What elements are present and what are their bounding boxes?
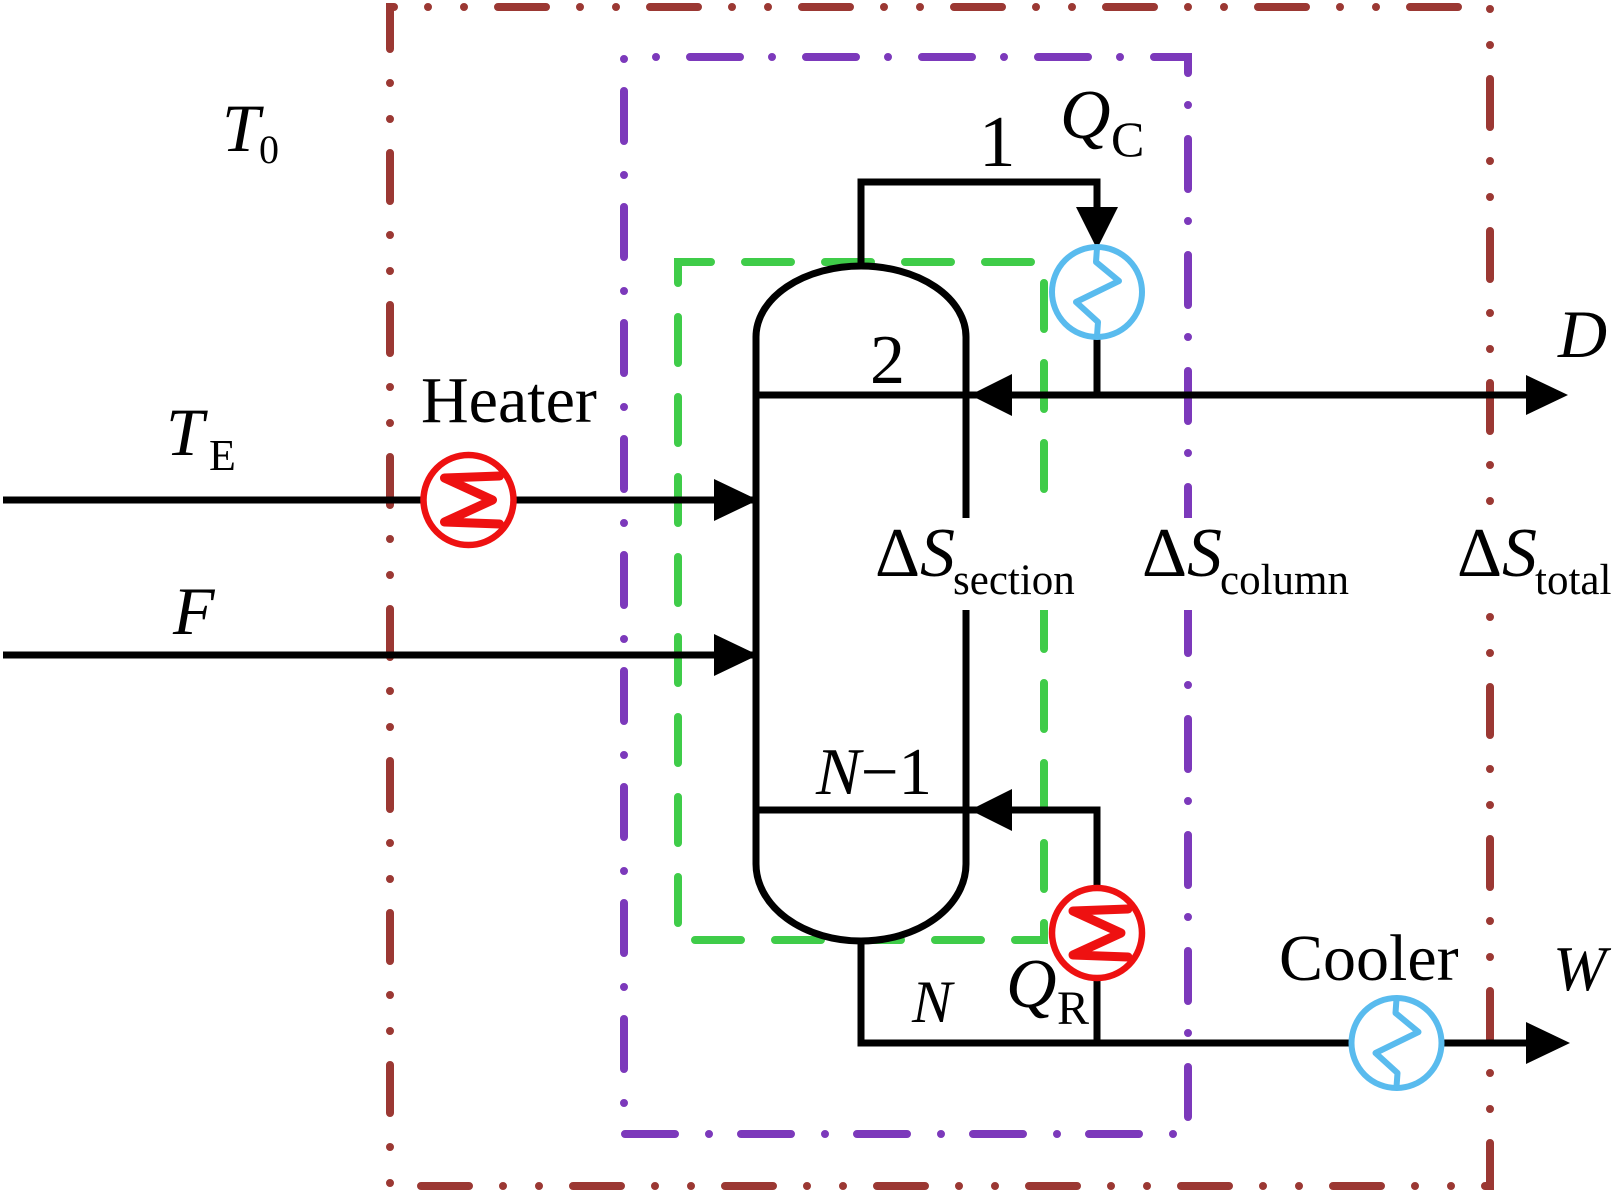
svg-text:T: T (166, 394, 208, 470)
svg-text:D: D (1557, 296, 1607, 372)
svg-text:Q: Q (1060, 77, 1111, 154)
svg-text:R: R (1057, 982, 1089, 1035)
svg-text:section: section (953, 557, 1075, 604)
svg-text:F: F (172, 573, 216, 649)
svg-text:Q: Q (1006, 946, 1057, 1023)
svg-text:N−1: N−1 (815, 735, 932, 809)
svg-text:W: W (1553, 933, 1612, 1004)
svg-text:C: C (1111, 111, 1144, 167)
svg-text:T: T (222, 90, 264, 166)
svg-text:Cooler: Cooler (1279, 922, 1459, 995)
svg-text:ΔS: ΔS (1457, 515, 1537, 592)
svg-text:ΔS: ΔS (875, 515, 955, 592)
svg-text:E: E (209, 431, 236, 480)
svg-text:ΔS: ΔS (1142, 515, 1222, 592)
svg-text:total: total (1535, 557, 1611, 604)
svg-text:N: N (911, 969, 955, 1035)
svg-text:column: column (1220, 557, 1349, 604)
svg-text:Heater: Heater (421, 364, 597, 437)
svg-text:0: 0 (259, 127, 279, 172)
svg-text:2: 2 (870, 322, 905, 399)
svg-text:1: 1 (979, 101, 1016, 182)
